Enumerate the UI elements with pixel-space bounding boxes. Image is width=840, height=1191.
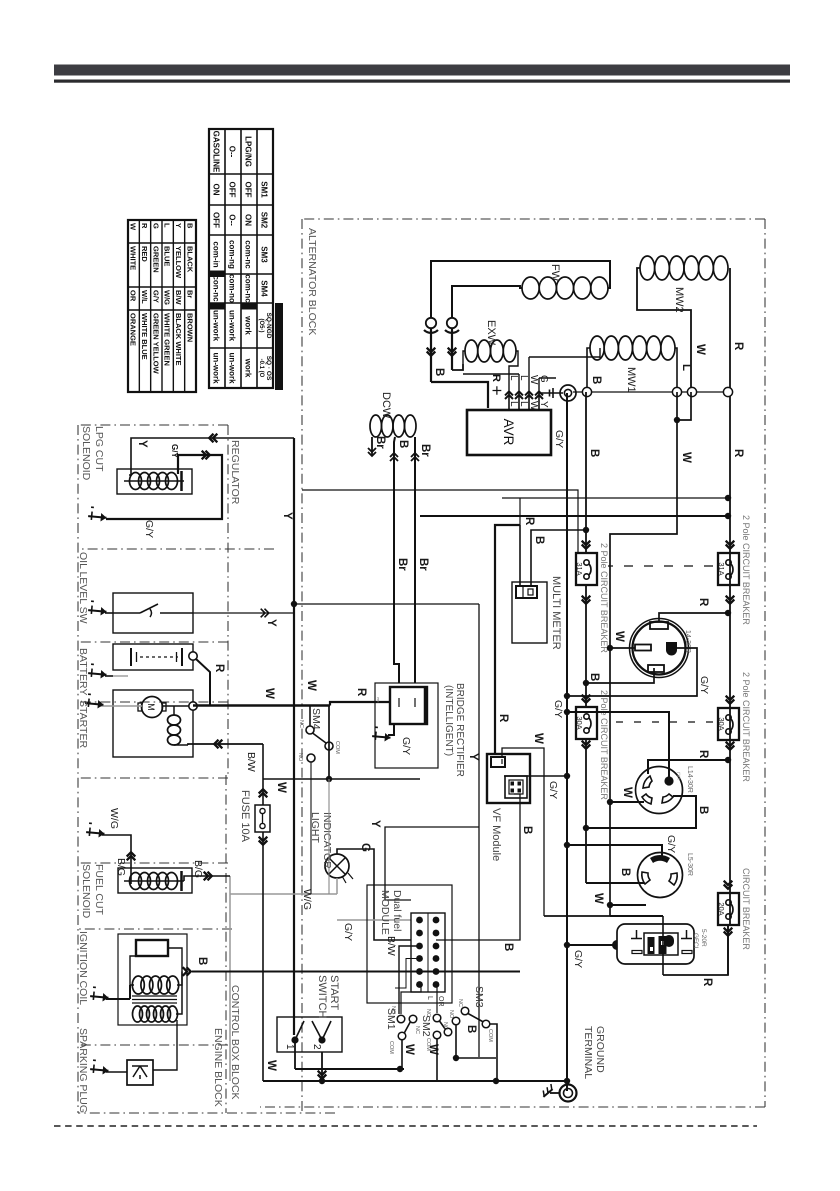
svg-text:B/W: B/W — [174, 290, 183, 306]
svg-text:AVR: AVR — [501, 419, 516, 446]
svg-text:1: 1 — [284, 1044, 295, 1050]
svg-text:W: W — [275, 782, 287, 793]
svg-text:R: R — [701, 978, 713, 987]
svg-text:FW: FW — [549, 264, 561, 282]
svg-text:W: W — [305, 680, 317, 691]
svg-text:B/G: B/G — [192, 860, 204, 878]
svg-text:Y: Y — [281, 512, 293, 520]
svg-text:SOLENOID: SOLENOID — [80, 864, 92, 919]
svg-text:W: W — [694, 344, 706, 355]
svg-text:NC: NC — [457, 999, 463, 1007]
svg-text:OR: OR — [129, 290, 138, 302]
svg-text:R: R — [213, 664, 225, 673]
svg-text:MULTI METER: MULTI METER — [550, 576, 562, 650]
svg-text:G/Y: G/Y — [547, 781, 559, 799]
svg-text:BRIDGE RECTIFIER: BRIDGE RECTIFIER — [454, 683, 465, 777]
svg-text:B: B — [433, 368, 445, 376]
svg-text:2: 2 — [311, 1044, 322, 1050]
svg-text:ENGINE BLOCK: ENGINE BLOCK — [212, 1028, 224, 1107]
svg-text:NO: NO — [425, 1009, 431, 1018]
svg-text:un-work: un-work — [228, 310, 237, 342]
svg-text:W: W — [265, 1060, 277, 1071]
svg-text:ORANGE: ORANGE — [129, 313, 138, 346]
svg-text:CONTROL BOX BLOCK: CONTROL BOX BLOCK — [229, 985, 241, 1100]
svg-text:REGULATOR: REGULATOR — [229, 440, 241, 505]
svg-text:VF Module: VF Module — [490, 808, 502, 861]
svg-text:G/Y: G/Y — [572, 950, 584, 968]
svg-text:BROWN: BROWN — [185, 313, 194, 342]
svg-text:BLUE: BLUE — [163, 246, 172, 266]
svg-text:OFF: OFF — [212, 212, 221, 228]
svg-text:SQ-NGD: SQ-NGD — [265, 313, 272, 339]
svg-text:work: work — [244, 315, 253, 335]
svg-text:L14-30R: L14-30R — [686, 766, 693, 793]
svg-text:un-work: un-work — [228, 352, 237, 384]
svg-text:WHITE BLUE: WHITE BLUE — [140, 313, 149, 360]
svg-text:R: R — [697, 750, 709, 759]
svg-text:B: B — [185, 223, 194, 229]
svg-text:W: W — [680, 452, 692, 463]
svg-text:NO: NO — [297, 753, 303, 762]
svg-text:20A: 20A — [717, 902, 726, 915]
svg-text:SM4: SM4 — [310, 708, 322, 730]
svg-text:work: work — [244, 358, 253, 378]
svg-text:R: R — [732, 449, 744, 458]
svg-text:Br: Br — [396, 558, 408, 571]
svg-text:G/Y: G/Y — [400, 737, 412, 755]
svg-text:com-nc: com-nc — [244, 274, 253, 303]
svg-text:B: B — [588, 673, 600, 681]
svg-text:B: B — [619, 868, 631, 876]
svg-text:Y: Y — [174, 223, 183, 228]
svg-text:GROUND: GROUND — [594, 1026, 606, 1073]
svg-text:L: L — [426, 996, 433, 1000]
svg-text:2 Pole CIRCUIT BREAKER: 2 Pole CIRCUIT BREAKER — [741, 672, 751, 782]
svg-text:FUEL CUT: FUEL CUT — [93, 864, 105, 916]
svg-text:com-in: com-in — [212, 241, 221, 267]
svg-text:SQ · OS: SQ · OS — [265, 356, 272, 381]
svg-text:Br: Br — [417, 558, 429, 571]
svg-text:GREEN YELLOW: GREEN YELLOW — [151, 313, 160, 375]
svg-text:B: B — [397, 440, 409, 448]
svg-text:B: B — [196, 957, 208, 965]
svg-text:B: B — [521, 826, 533, 834]
svg-text:SWITCH: SWITCH — [316, 975, 328, 1018]
svg-text:START: START — [328, 975, 340, 1010]
svg-text:OFF: OFF — [244, 182, 253, 198]
svg-text:ON: ON — [244, 214, 253, 226]
svg-text:2 Pole CIRCUIT BREAKER: 2 Pole CIRCUIT BREAKER — [599, 543, 609, 653]
svg-text:un-work: un-work — [212, 310, 221, 342]
svg-text:COM: COM — [388, 1041, 394, 1054]
svg-text:M: M — [146, 703, 156, 711]
svg-text:G: G — [359, 843, 371, 852]
svg-text:SM2: SM2 — [420, 1015, 432, 1037]
svg-text:BLACK: BLACK — [185, 246, 194, 273]
svg-text:com-ng: com-ng — [228, 240, 237, 269]
svg-text:W/G: W/G — [163, 290, 172, 305]
svg-text:ALTERNATOR BLOCK: ALTERNATOR BLOCK — [306, 228, 318, 335]
svg-text:G: G — [151, 223, 160, 229]
svg-text:R: R — [497, 714, 509, 723]
svg-text:W: W — [532, 733, 544, 744]
svg-text:NO: NO — [448, 1010, 454, 1019]
svg-text:Dual fuel: Dual fuel — [391, 890, 403, 931]
svg-text:W/L: W/L — [140, 290, 149, 304]
svg-text:NO: NO — [390, 1006, 396, 1015]
svg-text:TERMINAL: TERMINAL — [582, 1026, 594, 1079]
svg-text:B/W: B/W — [245, 752, 257, 772]
svg-text:SM3: SM3 — [473, 986, 485, 1008]
svg-text:G/Y: G/Y — [170, 444, 179, 458]
svg-text:RED: RED — [140, 246, 149, 262]
svg-text:W: W — [613, 631, 625, 642]
svg-text:Br: Br — [419, 444, 431, 457]
svg-text:SPARKING PLUG: SPARKING PLUG — [77, 1028, 89, 1113]
svg-text:G/Y: G/Y — [143, 520, 155, 538]
svg-text:R: R — [523, 517, 535, 526]
svg-text:W: W — [621, 787, 633, 798]
svg-text:CIRCUIT BREAKER: CIRCUIT BREAKER — [741, 868, 751, 950]
svg-text:STARTER: STARTER — [77, 700, 89, 748]
svg-text:LPG/NG: LPG/NG — [244, 136, 253, 167]
svg-text:-0.1 (O: -0.1 (O — [258, 359, 264, 378]
svg-text:SM2: SM2 — [260, 212, 269, 229]
svg-text:G/Y: G/Y — [552, 700, 564, 718]
svg-text:GFCI: GFCI — [692, 933, 699, 949]
svg-text:SM4: SM4 — [260, 280, 269, 297]
svg-text:L: L — [680, 364, 692, 371]
svg-text:GASOLINE: GASOLINE — [212, 131, 221, 173]
svg-text:WHITE GREEN: WHITE GREEN — [163, 313, 172, 366]
svg-text:com-nc: com-nc — [244, 240, 253, 269]
svg-text:NC: NC — [414, 1026, 420, 1034]
svg-text:2 Pole CIRCUIT BREAKER: 2 Pole CIRCUIT BREAKER — [741, 515, 751, 625]
svg-text:MW1: MW1 — [625, 367, 637, 393]
svg-text:COM: COM — [334, 741, 340, 754]
svg-text:COM: COM — [487, 1029, 493, 1042]
svg-text:⊓⊓: ⊓⊓ — [675, 772, 681, 780]
svg-text:Y: Y — [265, 619, 277, 627]
svg-text:B/G: B/G — [115, 858, 127, 876]
svg-text:un-work: un-work — [212, 352, 221, 384]
svg-text:MODULE: MODULE — [379, 890, 391, 935]
svg-text:G/Y: G/Y — [342, 923, 354, 941]
svg-text:W/G: W/G — [108, 808, 120, 829]
svg-text:31A: 31A — [575, 562, 584, 575]
svg-text:W: W — [129, 223, 138, 231]
svg-text:W: W — [403, 1044, 415, 1055]
svg-text:B: B — [697, 806, 709, 814]
svg-text:B: B — [502, 943, 514, 951]
svg-text:NC: NC — [442, 1022, 448, 1030]
svg-text:BATTERY: BATTERY — [77, 648, 89, 695]
svg-text:G/Y: G/Y — [665, 835, 677, 853]
svg-text:(INTELLIGENT): (INTELLIGENT) — [443, 685, 454, 756]
svg-text:ON: ON — [212, 184, 221, 196]
svg-text:WHITE: WHITE — [129, 246, 138, 270]
svg-text:R: R — [355, 688, 367, 697]
svg-text:5-20R: 5-20R — [700, 929, 707, 947]
svg-text:L: L — [508, 401, 519, 407]
svg-text:FUSE 10A: FUSE 10A — [239, 790, 251, 843]
svg-text:14-30R: 14-30R — [684, 630, 691, 653]
svg-text:EXW: EXW — [485, 320, 497, 346]
svg-text:Y: Y — [136, 440, 148, 448]
svg-text:Br: Br — [185, 290, 194, 298]
svg-text:2 Pole CIRCUIT BREAKER: 2 Pole CIRCUIT BREAKER — [599, 690, 609, 800]
svg-text:OFF: OFF — [228, 182, 237, 198]
svg-text:Y: Y — [467, 753, 479, 761]
svg-text:B: B — [465, 1025, 477, 1033]
svg-text:R ＋: R ＋ — [490, 374, 502, 396]
svg-text:SM3: SM3 — [260, 246, 269, 263]
svg-text:R: R — [697, 598, 709, 607]
svg-text:Y: Y — [369, 820, 381, 828]
svg-text:INDICATOR: INDICATOR — [321, 812, 333, 869]
svg-text:IGNITION COIL: IGNITION COIL — [77, 931, 89, 1005]
svg-text:B: B — [590, 376, 602, 384]
svg-text:W: W — [592, 893, 604, 904]
svg-text:GREEN: GREEN — [151, 246, 160, 273]
svg-text:con-nc: con-nc — [212, 275, 221, 302]
svg-text:G/Y: G/Y — [553, 430, 565, 448]
svg-text:SM1: SM1 — [260, 181, 269, 198]
svg-text:BLACK WHITE: BLACK WHITE — [174, 313, 183, 366]
svg-text:SOLENOID: SOLENOID — [80, 426, 92, 481]
svg-text:⎓: ⎓ — [374, 697, 381, 703]
svg-text:LPG CUT: LPG CUT — [93, 426, 105, 472]
svg-text:L: L — [163, 223, 172, 228]
svg-text:W: W — [263, 688, 275, 699]
svg-text:30A: 30A — [575, 716, 584, 729]
svg-text:L: L — [508, 375, 519, 381]
svg-text:30A: 30A — [717, 717, 726, 730]
svg-text:YELLOW: YELLOW — [174, 246, 183, 279]
svg-text:R: R — [732, 342, 744, 351]
svg-text:NC: NC — [298, 720, 304, 728]
svg-text:R: R — [140, 223, 149, 229]
svg-text:DCW: DCW — [380, 392, 392, 419]
svg-text:(O5·): (O5·) — [258, 319, 264, 333]
svg-text:OR: OR — [437, 996, 444, 1007]
svg-text:B/W: B/W — [385, 936, 397, 956]
svg-text:B: B — [533, 536, 545, 544]
svg-text:MW2: MW2 — [673, 287, 685, 313]
svg-text:31A: 31A — [717, 562, 726, 575]
svg-text:OIL LEVEL SW: OIL LEVEL SW — [77, 552, 89, 624]
svg-text:Br: Br — [374, 436, 386, 449]
svg-text:G/Y: G/Y — [698, 676, 710, 694]
svg-text:O--: O-- — [228, 214, 237, 226]
svg-text:com-no: com-no — [228, 274, 237, 303]
svg-text:B: B — [588, 449, 600, 457]
svg-text:O--: O-- — [228, 146, 237, 158]
svg-text:L5-30R: L5-30R — [686, 853, 693, 876]
svg-text:G/Y: G/Y — [151, 290, 160, 303]
